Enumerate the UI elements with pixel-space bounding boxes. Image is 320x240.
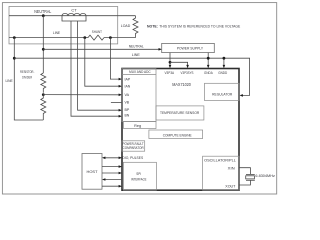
svg-text:NEUTRAL: NEUTRAL bbox=[129, 44, 145, 49]
resistor divider R bottom bbox=[41, 95, 46, 120]
svg-text:NEUTRAL: NEUTRAL bbox=[34, 9, 52, 14]
wire V3P3 drop from power supply bbox=[169, 53, 171, 66]
wire VB stub bbox=[111, 101, 122, 103]
node V3P3 junction bbox=[169, 61, 172, 64]
node GNDD junction bbox=[223, 57, 226, 60]
svg-text:RESISTOR-: RESISTOR- bbox=[20, 69, 35, 74]
pin arrow IAP bbox=[119, 78, 122, 81]
node divider mid junction bbox=[42, 93, 45, 96]
svg-text:V3P3SYS: V3P3SYS bbox=[181, 71, 194, 75]
svg-text:CT: CT bbox=[71, 8, 77, 13]
node shunt right junction bbox=[109, 36, 112, 39]
node NEUTRAL tap junction bbox=[42, 14, 45, 17]
block MUX AND ADC bbox=[122, 69, 156, 122]
wire VA tap bbox=[43, 94, 119, 96]
block TEMPERATURE SENSOR bbox=[156, 106, 204, 120]
wire IAN from shunt bbox=[85, 38, 120, 87]
pin arrow IAN bbox=[119, 85, 122, 88]
svg-text:VB: VB bbox=[125, 101, 130, 105]
svg-text:INTERFACE: INTERFACE bbox=[131, 178, 147, 182]
pin arrow GNDA bbox=[207, 65, 210, 68]
svg-text:LINE: LINE bbox=[132, 53, 141, 57]
HOST box bbox=[82, 154, 102, 190]
wire ground stub from power supply bbox=[207, 53, 209, 66]
svg-text:SHUNT: SHUNT bbox=[92, 29, 103, 34]
wire SPI 2 bbox=[102, 172, 121, 174]
pin arrow VA bbox=[119, 94, 122, 97]
wire NEUTRAL rail to power supply bbox=[43, 48, 159, 50]
svg-text:IAN: IAN bbox=[125, 84, 131, 88]
wire LINE conductor with shunt bbox=[9, 37, 88, 39]
outer page border frame bbox=[2, 3, 276, 194]
wire SPI 4 bbox=[102, 185, 121, 187]
svg-text:LOAD: LOAD bbox=[121, 23, 131, 28]
node GNDA junction bbox=[207, 57, 210, 60]
svg-text:HOST: HOST bbox=[87, 169, 99, 174]
svg-text:LINE: LINE bbox=[53, 31, 61, 35]
svg-text:REGULATOR: REGULATOR bbox=[212, 93, 232, 97]
current transformer CT bbox=[62, 13, 120, 116]
node LINE rail start junction bbox=[13, 57, 16, 60]
block Reg bbox=[124, 122, 157, 129]
svg-text:SPI: SPI bbox=[136, 172, 141, 176]
svg-text:VA: VA bbox=[125, 93, 130, 97]
svg-text:Reg: Reg bbox=[134, 123, 141, 128]
wire V3P3 jumper to V3P3SYS bbox=[170, 62, 188, 66]
power supply box bbox=[162, 43, 215, 52]
block COMPUTE ENGINE bbox=[149, 130, 203, 139]
svg-text:GNDD: GNDD bbox=[218, 71, 227, 75]
svg-text:TEMPERATURE SENSOR: TEMPERATURE SENSOR bbox=[160, 111, 200, 115]
wire NEUTRAL top conductor bbox=[9, 15, 136, 17]
svg-text:XOUT: XOUT bbox=[225, 184, 236, 188]
block SPI INTERFACE bbox=[123, 162, 156, 190]
meter enclosure box (gray) bbox=[9, 7, 118, 44]
pin arrow IBP bbox=[119, 109, 122, 112]
svg-text:XIN: XIN bbox=[228, 166, 235, 170]
svg-text:V3P3A: V3P3A bbox=[165, 71, 175, 75]
wire SPI 1 bbox=[102, 166, 121, 168]
svg-text:LINE: LINE bbox=[5, 79, 13, 83]
pin arrow V3P3A bbox=[169, 65, 172, 68]
block REGULATOR bbox=[205, 83, 240, 100]
svg-text:DIO, PULSES: DIO, PULSES bbox=[122, 156, 143, 160]
wire CT secondary lead to IBP bbox=[78, 21, 120, 110]
resistor LOAD bbox=[133, 16, 138, 38]
node shunt left junction bbox=[83, 36, 86, 39]
svg-text:THIS SYSTEM IS REFERENCED TO L: THIS SYSTEM IS REFERENCED TO LINE VOLTAG… bbox=[159, 23, 240, 28]
svg-text:DIVIDER: DIVIDER bbox=[22, 75, 32, 80]
wire CT secondary lead to IBN bbox=[71, 21, 120, 116]
wire LINE rail across to regulator bbox=[14, 58, 249, 95]
svg-text:IAP: IAP bbox=[125, 77, 131, 81]
svg-text:6.8304MHz: 6.8304MHz bbox=[255, 174, 275, 178]
crystal Y1 bbox=[239, 168, 255, 185]
node neutral rail start junction bbox=[42, 48, 45, 51]
svg-text:NOTE:: NOTE: bbox=[147, 23, 158, 28]
wire IAP from shunt bbox=[110, 38, 119, 80]
svg-text:OSCILLATOR/PLL: OSCILLATOR/PLL bbox=[204, 158, 236, 162]
pin arrow IBN bbox=[119, 115, 122, 118]
svg-text:BN: BN bbox=[125, 114, 130, 118]
svg-text:COMPUTE ENGINE: COMPUTE ENGINE bbox=[163, 133, 192, 137]
resistor divider R top bbox=[41, 73, 46, 93]
wire GNDD drop bbox=[223, 58, 225, 66]
resistor SHUNT bbox=[88, 35, 104, 40]
svg-text:BP: BP bbox=[125, 108, 130, 112]
pin arrow GNDD bbox=[223, 65, 226, 68]
svg-text:MAX71020: MAX71020 bbox=[172, 82, 191, 87]
svg-text:GNDA: GNDA bbox=[204, 71, 213, 75]
wire LINE vertical at left bbox=[14, 38, 43, 120]
block OSCILLATOR/PLL bbox=[203, 156, 239, 190]
block POWER-FAULT COMPARATOR bbox=[122, 141, 145, 151]
wire DIO bidirectional bbox=[104, 157, 121, 159]
wire neutral sense vertical to resistor divider bbox=[42, 16, 44, 73]
pin arrow V3P3SYS bbox=[186, 65, 189, 68]
op chip MAX71020 outline bbox=[122, 69, 239, 191]
svg-text:MUX AND ADC: MUX AND ADC bbox=[129, 70, 151, 74]
svg-text:COMPARATOR: COMPARATOR bbox=[123, 146, 144, 150]
wire SPI 3 (to host) bbox=[104, 179, 123, 181]
svg-text:POWER SUPPLY: POWER SUPPLY bbox=[177, 45, 204, 50]
node line tap junction bbox=[13, 36, 16, 39]
